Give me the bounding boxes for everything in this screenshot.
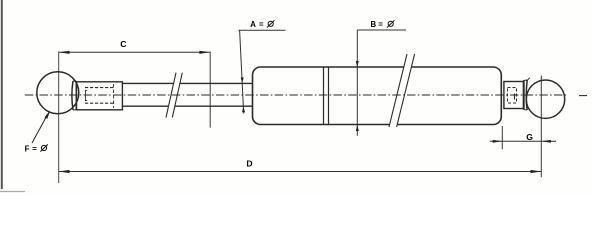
svg-text:F: F: [25, 145, 30, 154]
svg-text:C: C: [120, 39, 126, 49]
svg-text:D: D: [246, 158, 252, 168]
svg-text:=: =: [378, 20, 383, 29]
svg-text:G: G: [526, 132, 533, 142]
svg-text:=: =: [259, 20, 264, 29]
svg-text:=: =: [32, 145, 37, 154]
svg-text:B: B: [371, 20, 377, 29]
svg-text:A: A: [250, 20, 256, 29]
